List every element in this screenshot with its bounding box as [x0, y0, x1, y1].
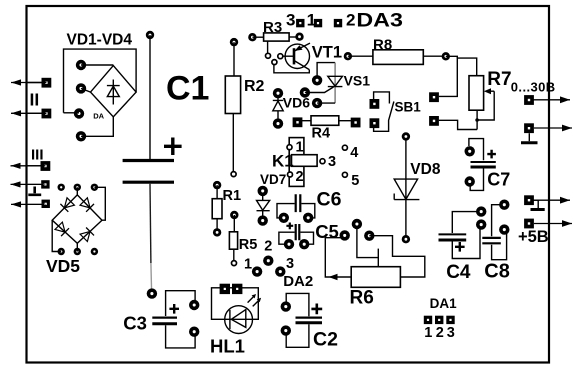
pad C2 plus — [281, 301, 291, 311]
connector pad X1.1 — [42, 78, 52, 88]
pad R3 right — [295, 33, 303, 41]
arrow out — [532, 96, 570, 103]
svg-text:VD7: VD7 — [260, 172, 286, 187]
via — [231, 172, 236, 177]
button SB1 bracket — [374, 92, 390, 104]
wire — [233, 215, 235, 232]
svg-text:2: 2 — [264, 239, 272, 255]
pad VS1 cathode — [312, 98, 322, 108]
capacitor C5 plates — [296, 224, 300, 240]
pad VS1 gate — [300, 87, 310, 97]
pad R8 left — [344, 52, 352, 60]
capacitor C1 plates — [123, 161, 174, 183]
diode VD5.2 — [80, 198, 94, 212]
pad R3 left — [248, 33, 256, 41]
wire — [452, 229, 480, 259]
svg-text:R6: R6 — [350, 288, 374, 309]
plus sign C5 — [286, 223, 293, 230]
pad C3 minus — [189, 327, 199, 337]
connector pad X2.1 — [41, 161, 51, 171]
wire — [325, 238, 351, 277]
rectifier VD5 pads top — [58, 184, 65, 191]
wire — [452, 212, 477, 233]
pad VD6 cathode — [273, 88, 283, 98]
R6 wiper arrow — [329, 274, 338, 281]
svg-text:VD5: VD5 — [46, 256, 80, 276]
plus sign C7 — [487, 150, 496, 159]
connector pad X2.2 — [41, 180, 49, 188]
pad R5 top — [230, 211, 238, 219]
pad C5 left — [284, 239, 294, 249]
wire — [339, 120, 351, 122]
pad C6 right — [303, 213, 313, 223]
capacitor C7 bracket — [469, 139, 484, 161]
svg-text:C6: C6 — [317, 189, 342, 211]
via K1 pin4 — [342, 145, 347, 150]
wire — [76, 187, 78, 195]
pad C8 top — [499, 200, 509, 210]
pad DA2 pin1 — [252, 266, 262, 276]
wire — [277, 204, 295, 218]
arrow out — [534, 220, 572, 227]
capacitor C3 bracket bottom — [166, 325, 196, 348]
trimmer R7 — [469, 76, 484, 111]
capacitor C3 plates — [152, 317, 177, 319]
svg-text:VD1-VD4: VD1-VD4 — [67, 32, 133, 49]
svg-text:VD8: VD8 — [410, 161, 441, 178]
pad R6-b — [340, 230, 350, 240]
svg-text:DA2: DA2 — [283, 273, 313, 290]
via K1 pin3 — [320, 159, 325, 164]
IC DA1 pad2 — [435, 316, 443, 324]
pad R7 top-left — [429, 92, 439, 102]
svg-text:R5: R5 — [239, 237, 258, 253]
wire — [27, 183, 46, 185]
LED HL1 symbol — [225, 310, 253, 330]
arrow out — [11, 111, 44, 116]
pad VD1-VD4 pin2 — [76, 83, 86, 93]
wire — [302, 120, 311, 122]
pad C6 left — [279, 213, 289, 223]
capacitor C2 bracket — [286, 293, 309, 316]
wire — [267, 41, 269, 53]
svg-text:4: 4 — [350, 145, 358, 161]
arrow out — [11, 182, 44, 187]
pad HL1 anode — [220, 284, 230, 294]
diode VD6 — [273, 97, 283, 121]
arrow out — [534, 125, 572, 132]
svg-text:3: 3 — [328, 154, 336, 170]
svg-text:SB1: SB1 — [395, 100, 422, 115]
capacitor C2 plates — [296, 317, 323, 319]
pad SB1 top — [370, 99, 380, 109]
svg-text:C1: C1 — [166, 70, 209, 108]
diode VD8 — [394, 141, 419, 237]
capacitor C8 plates — [482, 238, 501, 243]
via — [266, 53, 271, 58]
wire — [149, 35, 151, 159]
diode VD7 — [257, 195, 270, 218]
wire — [52, 220, 61, 251]
svg-text:R7: R7 — [487, 69, 511, 90]
IC DA1 pad3 — [446, 316, 454, 324]
svg-text:+5В: +5В — [518, 228, 549, 246]
wire — [300, 232, 313, 244]
wire — [492, 205, 500, 237]
LED HL1 outline — [212, 288, 259, 320]
wire — [334, 63, 336, 104]
pad R2 top — [230, 38, 238, 46]
pad SB1 bottom — [370, 118, 380, 128]
via — [278, 54, 283, 59]
wire — [216, 219, 218, 230]
wire — [305, 87, 334, 93]
svg-text:R2: R2 — [244, 78, 265, 95]
plus sign C4 — [455, 242, 465, 252]
wire — [27, 203, 46, 205]
svg-text:5: 5 — [351, 173, 359, 189]
wire — [446, 56, 458, 58]
svg-text:K1: K1 — [272, 152, 294, 171]
wire — [279, 232, 295, 244]
pad C7 minus — [465, 176, 475, 186]
arrow out — [11, 202, 44, 207]
pad C4 top — [476, 206, 486, 216]
wire — [27, 112, 47, 114]
svg-text:R8: R8 — [373, 37, 392, 54]
wire — [476, 110, 478, 129]
via — [272, 60, 277, 65]
pad HL1 cathode — [232, 284, 242, 294]
svg-text:DA3: DA3 — [356, 11, 403, 32]
svg-text:DA1: DA1 — [430, 296, 457, 311]
svg-text:0...30В: 0...30В — [511, 80, 556, 95]
wire — [27, 165, 46, 167]
wire — [76, 243, 78, 251]
wire — [94, 187, 105, 220]
wire — [492, 234, 507, 260]
svg-text:1: 1 — [296, 139, 304, 155]
capacitor C2 bracket bottom — [286, 324, 309, 347]
wire — [149, 184, 152, 263]
svg-text:VD6: VD6 — [283, 95, 310, 111]
diode mark inside bridge — [107, 80, 120, 105]
svg-text:2: 2 — [296, 169, 304, 185]
transistor VT1 — [283, 43, 310, 70]
pad R4 left — [293, 117, 303, 127]
connector pad +5V — [524, 195, 534, 205]
wire — [369, 236, 425, 277]
wire — [274, 65, 309, 73]
resistor R8 — [373, 50, 423, 65]
thyristor VS1 symbol — [328, 76, 343, 86]
svg-text:1: 1 — [307, 11, 316, 30]
svg-text:II: II — [30, 89, 40, 109]
IC DA3 pad 3 — [296, 19, 304, 27]
svg-text:C7: C7 — [487, 170, 510, 190]
wire — [439, 58, 477, 96]
wire — [81, 117, 113, 136]
wire — [232, 114, 234, 172]
pad C1 top — [146, 31, 154, 39]
resistor R2 — [225, 76, 240, 114]
button SB1 lever — [374, 102, 394, 132]
via R5 bottom — [232, 261, 237, 266]
connector pad X1.2 — [42, 109, 52, 119]
wire — [348, 55, 373, 57]
capacitor C4 plates — [439, 233, 467, 235]
svg-text:R3: R3 — [263, 19, 282, 36]
rectifier VD5 diamond — [52, 195, 102, 243]
svg-text:3: 3 — [286, 11, 295, 30]
pad VD7 top — [258, 186, 268, 196]
wire — [64, 112, 80, 114]
pad VD1-VD4 pin3 — [74, 108, 84, 118]
pad VD1-VD4 pin4 — [76, 131, 86, 141]
capacitor C7 bracket bottom — [470, 169, 483, 191]
pad C2 minus — [281, 325, 291, 335]
pad R6-c — [364, 231, 374, 241]
wire — [81, 64, 113, 66]
rectifier VD5 pads bottom — [58, 248, 65, 255]
pad DA2 pin2 — [263, 256, 273, 266]
relay K1 body — [289, 138, 304, 187]
svg-text:3: 3 — [286, 256, 294, 272]
connector pad out2 — [524, 123, 534, 133]
pad DA2 pin3 — [275, 266, 285, 276]
pad VD8 bottom — [402, 235, 410, 243]
pad VD8 top — [402, 132, 410, 140]
pad C8 bottom — [499, 224, 509, 234]
svg-text:2: 2 — [436, 325, 444, 341]
wire — [423, 55, 446, 57]
R7 wiper arrow — [484, 88, 494, 94]
svg-text:C5: C5 — [315, 221, 339, 242]
wire — [233, 42, 235, 76]
connector pad common — [524, 219, 534, 229]
pad wire end — [147, 288, 157, 298]
svg-text:C4: C4 — [446, 262, 471, 283]
connector pad out1 — [524, 95, 534, 105]
junction — [475, 118, 479, 122]
svg-text:HL1: HL1 — [210, 335, 245, 356]
svg-text:VT1: VT1 — [312, 43, 342, 61]
LED HL1 arrows — [248, 294, 262, 306]
resistor R3 — [264, 33, 290, 41]
diode VD5.3 — [55, 222, 69, 236]
IC DA3 pad 1 — [314, 19, 322, 27]
svg-text:R4: R4 — [312, 126, 331, 142]
pad R8 right — [442, 52, 450, 60]
diode VD5.1 — [60, 198, 74, 212]
wire — [477, 91, 494, 120]
arrow out — [11, 80, 44, 85]
resistor R5 — [229, 232, 237, 249]
pad R6-a — [352, 219, 362, 229]
plus sign C1 — [164, 138, 182, 156]
ground right1 — [528, 133, 530, 141]
bridge VD1-VD4 outline — [64, 49, 137, 113]
pad R1 top — [213, 181, 221, 189]
wire — [301, 204, 314, 218]
wire — [357, 228, 378, 258]
resistor R1 — [212, 199, 222, 219]
wire — [27, 82, 47, 84]
pad VD7 bottom — [258, 215, 268, 225]
R6 wiper stub — [377, 249, 379, 267]
arrow out — [532, 197, 570, 204]
svg-text:III: III — [31, 146, 44, 163]
svg-text:2: 2 — [346, 11, 355, 30]
wire — [216, 185, 218, 199]
wire — [439, 120, 477, 129]
plus sign C2 — [311, 304, 322, 315]
IC DA1 pad1 — [424, 316, 432, 324]
capacitor C3 bracket top — [166, 291, 196, 316]
via K1 pin2 — [288, 172, 293, 177]
svg-text:C8: C8 — [484, 261, 510, 283]
arrow out — [11, 163, 44, 168]
thyristor VS1 bracket — [317, 63, 335, 78]
pad C7 plus — [465, 146, 475, 156]
pad R4 right — [351, 118, 361, 128]
pad R1 bottom — [213, 228, 221, 236]
wire — [233, 249, 235, 261]
capacitor C6 plates — [296, 194, 301, 212]
wire — [289, 36, 299, 38]
bridge VD1-VD4 diamond — [91, 66, 137, 117]
svg-text:1: 1 — [424, 325, 432, 341]
pad R7 bottom-left — [429, 116, 439, 126]
pad C5 right — [299, 239, 309, 249]
svg-text:VS1: VS1 — [344, 73, 371, 89]
diode VD5.4 — [80, 227, 94, 241]
pad VD6 anode — [273, 118, 283, 128]
plus sign C3 — [169, 304, 179, 314]
connector pad X2.3 — [42, 200, 50, 208]
pad C3 plus — [189, 300, 199, 310]
pad C4 bottom — [476, 219, 486, 229]
IC DA3 pad 2 — [334, 19, 342, 27]
via K1 pin5 — [342, 172, 347, 177]
svg-text:C2: C2 — [313, 329, 338, 351]
resistor R4 — [311, 116, 339, 126]
svg-text:C3: C3 — [123, 313, 147, 334]
via K1 pin1 — [287, 145, 292, 150]
pad VS1 anode — [312, 75, 322, 85]
wire — [81, 88, 91, 92]
svg-text:3: 3 — [447, 325, 455, 341]
svg-text:R1: R1 — [223, 188, 242, 204]
relay K1 body2 — [292, 155, 318, 167]
ground right2 — [534, 200, 538, 208]
trimmer R6 — [351, 267, 400, 288]
ground — [28, 187, 41, 195]
LED HL1 circle — [225, 306, 253, 334]
wire — [252, 36, 263, 38]
svg-text:1: 1 — [244, 257, 252, 273]
capacitor C7 plates — [471, 161, 496, 163]
pad VD1-VD4 pin1 — [76, 60, 86, 70]
wire — [317, 102, 335, 104]
svg-text:DA: DA — [93, 111, 104, 120]
